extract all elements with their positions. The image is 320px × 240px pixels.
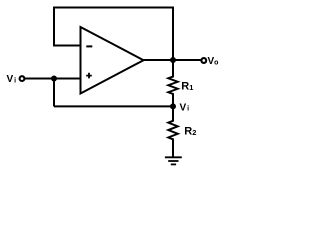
wire input junction down	[53, 79, 55, 107]
wire input to noninverting input	[24, 78, 80, 80]
resistor R1	[168, 60, 177, 106]
op-amp U1	[81, 27, 144, 94]
ground	[165, 157, 182, 164]
wire output	[144, 59, 201, 61]
node output junction	[170, 57, 176, 63]
svg-text:Vi: Vi	[7, 74, 17, 85]
svg-text:Vo: Vo	[208, 56, 219, 67]
wire feedback top horizontal	[53, 7, 174, 9]
node input junction	[51, 76, 57, 82]
wire feedback right vertical	[172, 7, 174, 61]
resistor R2	[168, 106, 177, 156]
svg-text:Vi: Vi	[180, 102, 190, 113]
terminal Vi input	[20, 76, 25, 81]
wire inverting input	[54, 45, 81, 47]
svg-text:R2: R2	[184, 126, 196, 138]
svg-text:R1: R1	[181, 81, 193, 93]
wire bottom horizontal to divider tap	[54, 105, 173, 107]
wire feedback left vertical	[53, 8, 55, 47]
terminal Vo output	[201, 58, 206, 63]
node divider tap	[170, 103, 176, 109]
